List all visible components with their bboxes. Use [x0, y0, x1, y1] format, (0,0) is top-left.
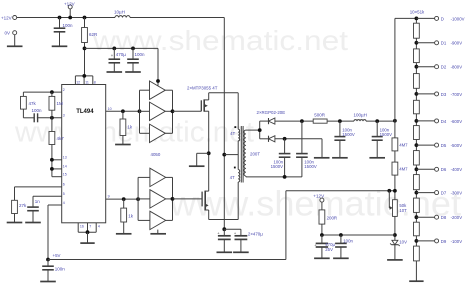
svg-text:470µ: 470µ [116, 52, 127, 57]
svg-text:5: 5 [63, 192, 65, 196]
svg-text:D: D [441, 16, 444, 21]
svg-text:100n: 100n [343, 238, 353, 243]
svg-text:-900V: -900V [451, 41, 463, 46]
svg-text:-100V: -100V [451, 239, 463, 244]
svg-text:3: 3 [63, 114, 65, 118]
svg-text:100n: 100n [135, 52, 146, 57]
svg-text:4M7: 4M7 [399, 143, 408, 148]
svg-text:+12V: +12V [64, 2, 75, 7]
svg-text:100n: 100n [63, 23, 74, 28]
svg-text:4T: 4T [230, 175, 235, 180]
svg-text:-500V: -500V [451, 143, 463, 148]
svg-text:D5: D5 [441, 143, 447, 148]
svg-text:1k: 1k [127, 125, 133, 130]
svg-text:4k7: 4k7 [57, 136, 65, 141]
svg-text:4M7: 4M7 [399, 167, 408, 172]
svg-text:1500V: 1500V [380, 132, 393, 137]
svg-text:100n: 100n [32, 108, 43, 113]
svg-text:27k: 27k [19, 203, 27, 208]
svg-text:D7: D7 [441, 191, 447, 196]
svg-text:-200V: -200V [451, 215, 463, 220]
svg-text:+12V: +12V [313, 194, 325, 199]
svg-text:7: 7 [89, 225, 91, 229]
svg-text:62R: 62R [89, 32, 98, 37]
svg-text:TL494: TL494 [76, 109, 94, 115]
svg-text:D1: D1 [441, 41, 447, 46]
svg-text:8: 8 [94, 80, 96, 84]
svg-text:-300V: -300V [451, 191, 463, 196]
svg-text:100n: 100n [55, 266, 66, 271]
svg-text:10V: 10V [399, 239, 407, 244]
svg-text:200R: 200R [327, 216, 338, 221]
svg-text:2×MTP3055 4T: 2×MTP3055 4T [187, 85, 218, 90]
svg-text:4050: 4050 [151, 152, 161, 157]
svg-text:4T: 4T [230, 131, 235, 136]
svg-text:1k: 1k [128, 214, 134, 219]
svg-text:0V: 0V [5, 31, 11, 36]
svg-text:1500V: 1500V [271, 164, 284, 169]
svg-text:4: 4 [63, 201, 65, 205]
svg-text:500R: 500R [314, 112, 326, 117]
svg-text:+12V: +12V [1, 15, 12, 20]
svg-text:-400V: -400V [451, 167, 463, 172]
svg-text:2: 2 [63, 88, 65, 92]
svg-text:9: 9 [108, 195, 110, 199]
svg-text:D6: D6 [441, 167, 447, 172]
svg-text:14: 14 [63, 165, 67, 169]
svg-text:47k: 47k [29, 101, 37, 106]
svg-text:D9: D9 [441, 239, 447, 244]
svg-text:1n: 1n [35, 199, 41, 204]
svg-text:D4: D4 [441, 119, 447, 124]
svg-text:100µH: 100µH [354, 112, 367, 117]
svg-text:D8: D8 [441, 215, 447, 220]
svg-text:25V: 25V [325, 247, 333, 252]
svg-text:10µH: 10µH [114, 9, 125, 14]
svg-text:1500V: 1500V [342, 132, 355, 137]
svg-text:D3: D3 [441, 92, 447, 97]
svg-text:4: 4 [98, 225, 100, 229]
svg-text:1M: 1M [57, 101, 64, 106]
svg-text:200T: 200T [250, 152, 260, 157]
svg-text:15: 15 [63, 173, 67, 177]
svg-text:www.shematic.net: www.shematic.net [92, 25, 349, 56]
svg-text:10: 10 [108, 107, 112, 111]
svg-text:11: 11 [85, 80, 89, 84]
svg-text:2×470µ: 2×470µ [248, 232, 263, 237]
svg-text:-600V: -600V [451, 119, 463, 124]
svg-text:6: 6 [63, 183, 65, 187]
svg-text:10T: 10T [399, 208, 407, 213]
svg-text:10×51k: 10×51k [410, 9, 425, 14]
svg-text:D2: D2 [441, 65, 447, 70]
svg-text:2×RGP02-20E: 2×RGP02-20E [257, 110, 286, 115]
svg-text:1500V: 1500V [304, 164, 317, 169]
svg-text:13: 13 [63, 156, 67, 160]
svg-text:-1000V: -1000V [451, 16, 465, 21]
svg-text:-700V: -700V [451, 92, 463, 97]
svg-text:12: 12 [76, 80, 80, 84]
svg-text:-800V: -800V [451, 65, 463, 70]
svg-text:+5V: +5V [53, 253, 61, 258]
svg-text:16: 16 [80, 225, 84, 229]
